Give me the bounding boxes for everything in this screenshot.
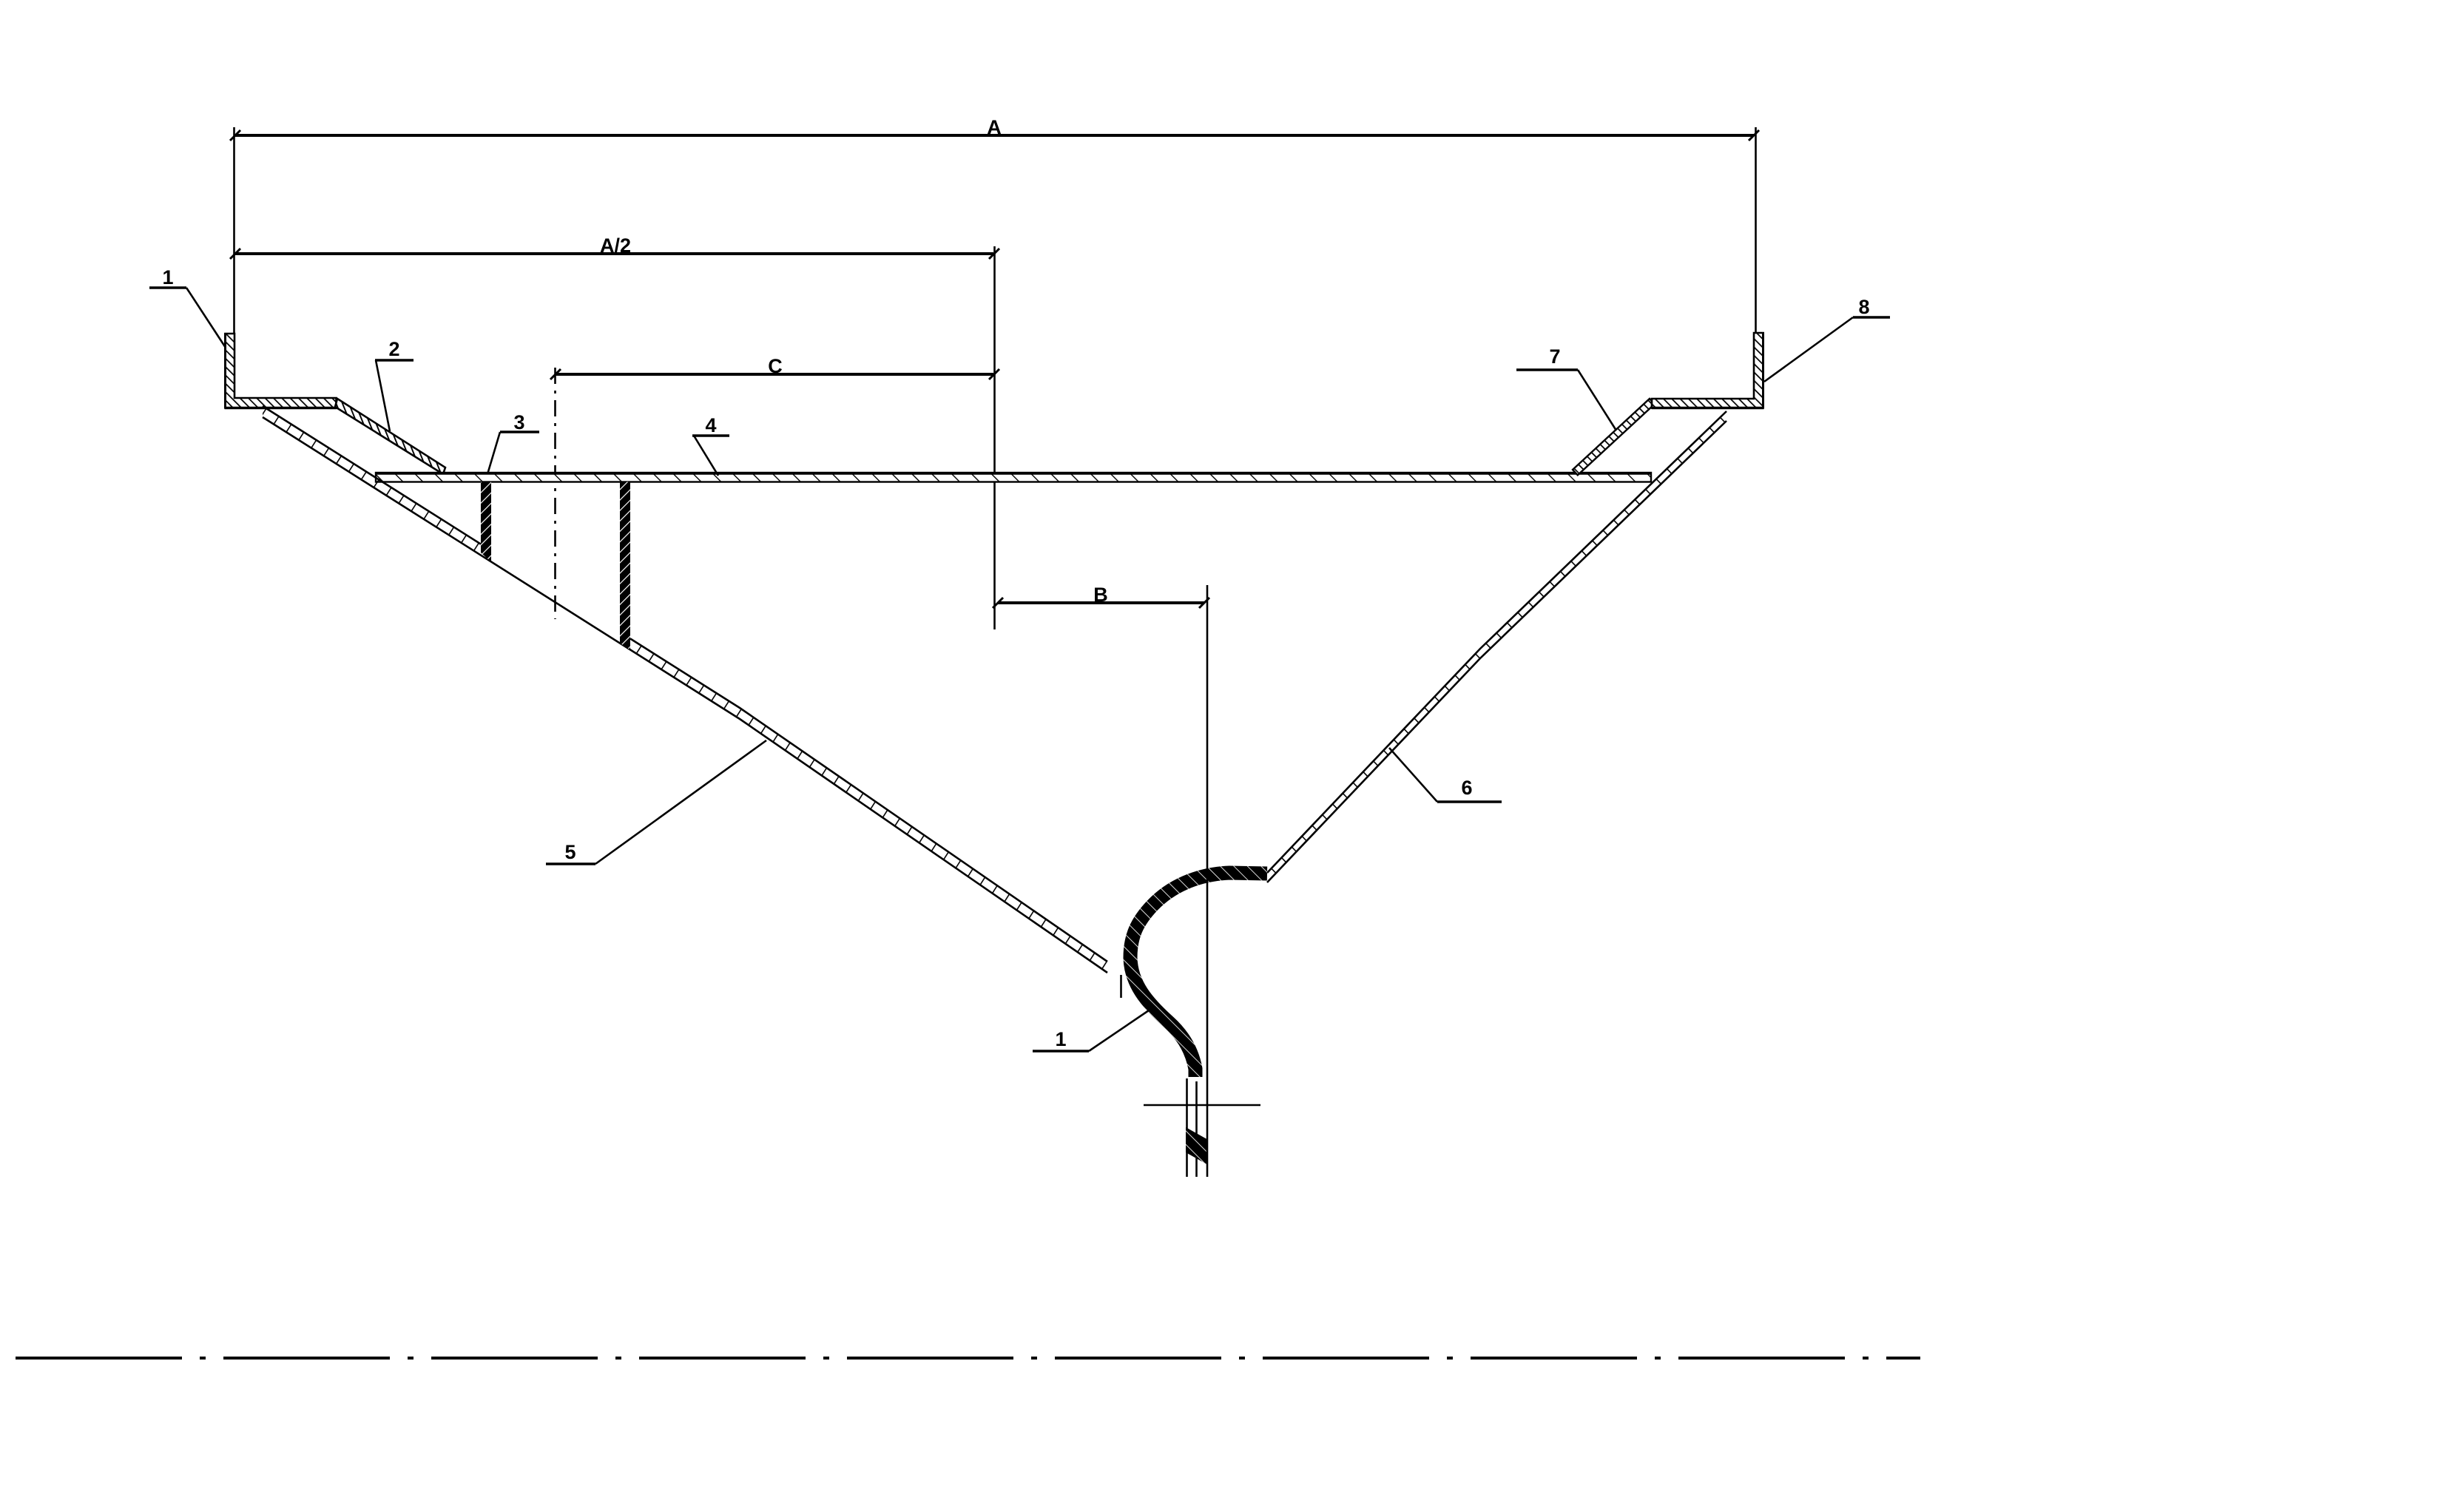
- vertical centerline of outlet: [1206, 585, 1209, 1177]
- short vertical edge line at wall5 end: [1120, 975, 1122, 998]
- outlet tube lower weld blob: [1186, 1127, 1207, 1164]
- dimension line A/2: [235, 252, 993, 255]
- svg-text:A/2: A/2: [600, 234, 631, 257]
- part 8 flange right (hatched angle section): [1652, 333, 1763, 408]
- svg-text:5: 5: [564, 841, 576, 863]
- part 7 short inclined strip (hatched): [1573, 399, 1655, 475]
- dimension A/2 extension line right (shared with B): [993, 246, 996, 629]
- svg-text:2: 2: [388, 338, 399, 360]
- svg-text:C: C: [768, 355, 783, 377]
- dimension line B: [998, 601, 1204, 604]
- svg-text:7: 7: [1549, 345, 1560, 368]
- dimension A extension line right: [1755, 127, 1757, 333]
- dimension A extension line left: [233, 127, 235, 334]
- svg-text:3: 3: [513, 411, 524, 433]
- part 1 flange left (hatched angle section): [226, 334, 337, 408]
- svg-text:4: 4: [705, 414, 716, 436]
- horizontal centerline tick: [1144, 1104, 1260, 1107]
- svg-text:1: 1: [162, 266, 173, 288]
- part 3 gusset column right (section, hatched): [620, 482, 630, 650]
- part 4 horizontal plate (hatched): [376, 473, 1651, 482]
- part 5 left cone wall strip segment B: [630, 638, 1107, 973]
- dimension line A: [235, 134, 1754, 137]
- outlet tube left wall: [1186, 1078, 1188, 1177]
- svg-text:A: A: [987, 116, 1002, 138]
- part 5 left cone wall strip segment A: [263, 406, 481, 555]
- svg-text:1: 1: [1055, 1028, 1066, 1050]
- part 6 right cone wall strip: [1267, 411, 1727, 882]
- svg-text:8: 8: [1858, 296, 1869, 318]
- outlet S-curve thick section: [1130, 873, 1267, 1077]
- dimension line C: [556, 373, 993, 376]
- svg-text:6: 6: [1461, 777, 1472, 799]
- part 5 outer surface line (continuous): [263, 417, 1107, 973]
- svg-text:B: B: [1093, 584, 1108, 606]
- part 3 gusset column left (section, hatched): [481, 482, 491, 563]
- dimension C extension line left (dash-dot centerline): [554, 368, 556, 619]
- bottom chain centerline: [16, 1357, 1920, 1360]
- part 2 inclined strip (hatched): [335, 399, 445, 474]
